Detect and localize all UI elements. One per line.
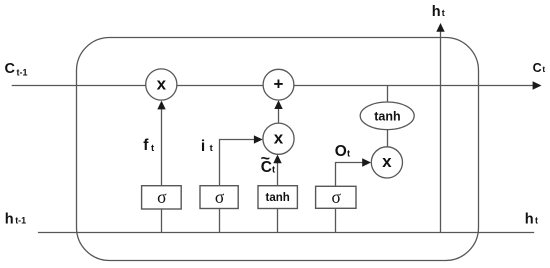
wire: forget gate sigma down to h line	[161, 209, 163, 233]
label O t (output gate signal)	[335, 143, 351, 160]
svg-text:t: t	[442, 8, 445, 18]
svg-text:σ: σ	[331, 187, 341, 207]
svg-text:t: t	[535, 216, 538, 226]
label h t (bottom right output)	[525, 212, 538, 228]
svg-text:C: C	[533, 61, 542, 75]
label C~ t (candidate cell state)	[261, 151, 276, 176]
svg-text:x: x	[157, 74, 167, 93]
label f t (forget gate signal)	[143, 137, 155, 154]
svg-text:O: O	[335, 143, 347, 160]
candidate tanh box	[258, 186, 297, 209]
label i t (input gate signal)	[201, 138, 214, 155]
wire: output gate sigma up then right into multiply (arrow)	[336, 158, 372, 186]
tanh ellipse node	[360, 102, 414, 130]
wire: candidate tanh box down to h line	[277, 209, 279, 233]
svg-text:t-1: t-1	[17, 68, 28, 78]
multiply node (input gate)	[263, 123, 294, 154]
multiply node (output gate)	[371, 147, 402, 178]
svg-text:σ: σ	[215, 187, 225, 207]
svg-text:C: C	[261, 159, 272, 176]
svg-text:t: t	[542, 64, 545, 74]
LSTM cell boundary (rounded box)	[77, 38, 479, 261]
svg-text:+: +	[274, 75, 284, 94]
svg-text:h: h	[525, 212, 534, 228]
wire: h_t output vertical line with top arrowhead	[436, 23, 444, 233]
wire: C line down into tanh ellipse	[387, 86, 389, 103]
wire: input gate sigma down to h line	[219, 209, 221, 233]
wire: input gate sigma up then right into multiply (arrow)	[220, 135, 263, 185]
wire: hidden state line h (horizontal bottom)	[38, 232, 534, 234]
wire: output gate sigma down to h line	[335, 208, 337, 232]
svg-text:t-1: t-1	[15, 216, 26, 226]
output gate sigma box	[316, 186, 356, 208]
svg-text:x: x	[382, 152, 392, 171]
label h t (top output)	[432, 4, 445, 20]
wire: tanh ellipse down to output multiply	[387, 130, 389, 147]
svg-text:tanh: tanh	[266, 192, 290, 204]
wire: cell state line C (horizontal, with arrowhead at right)	[12, 81, 542, 89]
svg-text:tanh: tanh	[374, 109, 400, 123]
svg-text:σ: σ	[157, 187, 167, 207]
label h t-1 (input hidden state)	[5, 212, 26, 228]
wire: candidate tanh box up into multiply (arrow)	[273, 155, 281, 186]
svg-text:h: h	[432, 4, 441, 20]
input gate sigma box	[200, 186, 238, 209]
wire: forget gate sigma up to multiply (arrow)	[157, 101, 165, 186]
forget gate sigma box	[142, 186, 182, 209]
svg-text:f: f	[143, 137, 149, 154]
add node	[263, 69, 294, 100]
label C t (output cell state)	[533, 61, 546, 75]
label C t-1 (input cell state)	[5, 61, 28, 77]
svg-text:x: x	[274, 128, 284, 147]
multiply node (forget gate)	[146, 69, 177, 100]
svg-text:h: h	[5, 212, 14, 228]
svg-text:i: i	[201, 138, 205, 155]
wire: multiply up into plus (arrow)	[274, 100, 282, 123]
svg-text:C: C	[5, 61, 16, 77]
